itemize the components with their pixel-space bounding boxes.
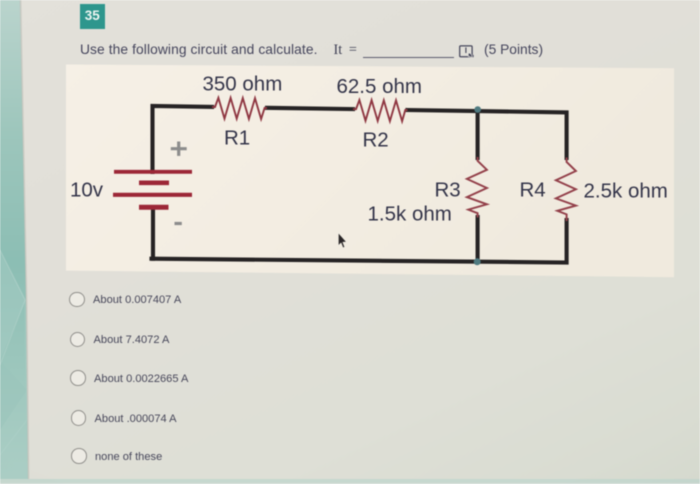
mouse cursor (338, 233, 347, 249)
resistor R4 zigzag body (vertical) (556, 158, 576, 222)
resistor R3 zigzag body (vertical) (467, 157, 487, 218)
svg-text:R4: R4 (520, 179, 546, 202)
option 1 text (93, 294, 181, 306)
resistor R2 zigzag body (353, 100, 408, 121)
wire battery V1 - terminal down to bottom rail (151, 208, 155, 259)
option 5 text (95, 451, 162, 463)
wire resistor R2 pin 2 through node A to resistor R4 pin 1 (top right corner down) (408, 110, 567, 158)
immersive reader icon (458, 44, 477, 60)
wire battery V1 + terminal up and right to resistor R1 pin 1 (153, 106, 213, 172)
wire resistor R1 pin 2 to resistor R2 pin 1 (267, 108, 353, 109)
points label (484, 42, 543, 57)
svg-text:350 ohm: 350 ohm (203, 73, 283, 96)
wire node A down to resistor R3 pin 1 (476, 110, 480, 158)
svg-text:2.5k ohm: 2.5k ohm (584, 180, 668, 203)
battery + polarity mark (171, 142, 187, 156)
svg-text:R3: R3 (435, 179, 461, 202)
radio button option 4 (71, 410, 87, 426)
answer blank line (363, 57, 454, 59)
It = prompt (334, 42, 357, 59)
svg-text:R2: R2 (363, 129, 389, 152)
figure background panel (66, 65, 674, 278)
option 4 text (95, 413, 177, 425)
node A junction dot (top, R3 branch) (474, 106, 481, 113)
wire resistor R3 pin 2 down to node B (476, 217, 480, 262)
radio button option 2 (70, 332, 86, 348)
node B junction dot (bottom, R3 branch) (474, 258, 481, 265)
battery - polarity mark (175, 222, 182, 225)
battery V1 plates (10v source) (113, 172, 192, 208)
wire bottom rail from battery V1 to resistor R4 pin 2 (right corner up) (152, 220, 567, 263)
radio button option 1 (69, 292, 85, 308)
svg-text:R1: R1 (224, 127, 250, 150)
option 3 text (94, 373, 188, 385)
svg-text:10v: 10v (70, 179, 104, 202)
question title text (80, 42, 640, 60)
radio button option 3 (70, 370, 86, 386)
option 2 text (94, 334, 170, 346)
svg-text:1.5k ohm: 1.5k ohm (368, 203, 452, 226)
radio button option 5 (71, 448, 87, 464)
resistor R1 zigzag body (212, 98, 267, 119)
svg-text:62.5 ohm: 62.5 ohm (337, 75, 422, 98)
question number badge 35 (80, 4, 105, 29)
